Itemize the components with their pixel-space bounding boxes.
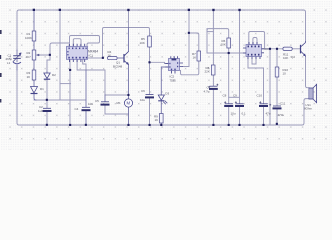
- wire R6 bottom down through C8 node: [228, 48, 230, 104]
- svg-text:10K: 10K: [140, 41, 145, 45]
- capacitor C5: [101, 102, 110, 105]
- node dot gnd x229: [228, 124, 230, 126]
- wire C8 to ground: [228, 107, 230, 126]
- node dot gnd return: [46, 99, 48, 101]
- node dot gnd x240: [238, 124, 240, 126]
- svg-text:0.1: 0.1: [242, 112, 247, 116]
- op-amp U2 (timer): [165, 56, 183, 73]
- wire speaker bottom to ground rail: [304, 99, 309, 101]
- lead R2 to R3: [33, 60, 35, 70]
- wire IC1 pin5 to C5: [77, 60, 105, 96]
- wire D2 down to ground rail: [46, 80, 48, 125]
- speaker LS1: [309, 84, 317, 102]
- wire IC2 output to Q2 base: [262, 48, 283, 50]
- svg-text:22K: 22K: [205, 70, 210, 74]
- svg-text:8Ohm: 8Ohm: [304, 107, 313, 111]
- wire C5 bottom jog: [105, 106, 129, 115]
- wires (light routing): [17, 10, 309, 125]
- wire T branch: [207, 31, 213, 33]
- resistor R3: [32, 70, 36, 80]
- resistor R8: [211, 65, 215, 75]
- lead R1: [33, 10, 35, 50]
- wire node E down to ground: [269, 49, 271, 125]
- svg-text:4.7u: 4.7u: [204, 90, 210, 94]
- node dot rail x60: [59, 9, 61, 11]
- svg-text:1K: 1K: [155, 118, 159, 122]
- wire V+ drop x=213 to R8: [212, 10, 214, 65]
- diode D1: [31, 87, 38, 94]
- svg-text:C11: C11: [280, 102, 286, 106]
- wire node C down to C6: [149, 62, 151, 94]
- capacitor C2: [43, 108, 52, 111]
- node dot gnd x172: [160, 124, 162, 126]
- wire V+ drop to IC1 area x=60: [59, 10, 61, 100]
- wire IC2 bottom pin loop: [252, 59, 256, 64]
- wire V+ drop x=240 to C9: [239, 10, 241, 104]
- svg-text:M: M: [127, 101, 131, 106]
- edge clipped marks left border: [0, 30, 2, 103]
- component leads (dark): [17, 10, 169, 125]
- wire R5 bottom to node C: [149, 47, 151, 62]
- wire node C to IC3 left pin: [150, 62, 169, 63]
- svg-text:100K: 100K: [25, 36, 32, 40]
- node dot rail x189: [188, 9, 190, 11]
- svg-text:10K: 10K: [283, 56, 288, 60]
- labels small text: [6, 32, 313, 122]
- inductor L1 curved plate: [13, 62, 21, 63]
- svg-text:Q2: Q2: [291, 55, 295, 59]
- svg-text:10u: 10u: [231, 112, 236, 116]
- resistor R2 (preset): [32, 50, 40, 60]
- wire IC1 pin to C4 jog: [83, 60, 86, 71]
- svg-text:C4: C4: [75, 107, 79, 111]
- label U3: [264, 47, 269, 51]
- wire node F through R10 C11 to ground: [276, 49, 278, 67]
- node dot gnd x47: [46, 124, 48, 126]
- wire R7 bottom to IC3 pin: [181, 61, 199, 75]
- wire top supply rail: [17, 10, 306, 51]
- svg-text:10u: 10u: [140, 98, 145, 102]
- lead tuning cap: [16, 50, 18, 70]
- node dot gnd x86: [85, 124, 87, 126]
- wire y27 to R5 top: [129, 28, 150, 37]
- node dot gnd x277: [276, 123, 278, 125]
- resistor R1: [32, 31, 36, 41]
- svg-text:1uF: 1uF: [38, 109, 43, 113]
- wire IC1 gnd branch left: [60, 83, 71, 85]
- wire node A up to IC1 loop: [50, 43, 70, 55]
- svg-text:7555: 7555: [170, 78, 177, 82]
- node dot base F: [276, 48, 278, 50]
- wire C6 to ground rail: [149, 98, 151, 125]
- svg-text:47u: 47u: [266, 112, 271, 116]
- svg-text:D3: D3: [165, 92, 169, 96]
- lead Q1 base: [118, 57, 124, 59]
- wire C9 to ground: [239, 107, 241, 126]
- capacitor C10: [259, 104, 268, 106]
- lead C4: [85, 70, 87, 125]
- variable capacitor C1: [13, 53, 21, 62]
- node dot IC1 out: [102, 57, 104, 59]
- diode D2: [44, 73, 50, 79]
- svg-text:10: 10: [283, 72, 287, 76]
- capacitor C11: [273, 106, 282, 108]
- svg-text:1K: 1K: [193, 56, 197, 60]
- svg-text:265p: 265p: [6, 57, 13, 61]
- wire x207 to IC2 left pin: [207, 29, 246, 53]
- node dot gnd x70: [69, 124, 71, 126]
- svg-text:4K7: 4K7: [26, 55, 32, 59]
- transistor Q1: [124, 52, 129, 65]
- svg-text:C6: C6: [141, 89, 145, 93]
- resistor R7: [197, 51, 201, 61]
- lead R3 to D1: [34, 80, 36, 100]
- wire C7 to ground: [212, 90, 214, 126]
- svg-text:IC3: IC3: [264, 47, 269, 51]
- node dot rail x34: [33, 9, 35, 11]
- wire R11 to Q2 base: [292, 48, 300, 50]
- transistor Q2: [301, 41, 306, 56]
- label U1: [88, 50, 98, 58]
- wire IC1 top loop A: [70, 36, 100, 47]
- wire node D to R7 top: [189, 33, 199, 51]
- node dot IC1 gnd: [69, 69, 71, 71]
- capacitor C7: [209, 86, 218, 89]
- svg-text:1K: 1K: [27, 75, 31, 79]
- wire IC2 top loop Y: [253, 38, 257, 45]
- capacitor C8: [224, 104, 233, 106]
- capacitor C6: [145, 95, 154, 98]
- node dot rail x128: [127, 9, 129, 11]
- wire C5 to node B: [105, 94, 128, 96]
- svg-text:C10: C10: [257, 94, 263, 98]
- wire Q2 emitter to speaker: [306, 57, 310, 88]
- wire IC2 top loop X: [249, 32, 265, 49]
- LED D3: [158, 95, 167, 104]
- capacitor C9: [235, 104, 244, 106]
- capacitor C4: [82, 107, 91, 110]
- wire R2 wiper to node A: [39, 55, 50, 72]
- motor M1: [124, 99, 132, 107]
- node dot rail x213: [212, 9, 214, 11]
- svg-text:D2: D2: [52, 73, 56, 77]
- op-amp U3 (audio amp): [243, 42, 264, 59]
- wire loop to R6: [207, 29, 229, 38]
- node dot gnd x213: [212, 124, 214, 126]
- wire IC1 gnd pin down: [69, 60, 71, 126]
- resistor R4: [108, 57, 118, 60]
- resistor R5: [148, 36, 152, 47]
- resistor R6: [227, 38, 231, 48]
- node dot base E: [269, 48, 271, 50]
- svg-text:IC1: IC1: [89, 54, 94, 58]
- node dot gnd x150: [149, 124, 151, 126]
- lead C5: [104, 95, 106, 102]
- svg-text:D1: D1: [40, 87, 44, 91]
- wire C10 to ground: [263, 107, 265, 126]
- node dot wiper: [49, 54, 51, 56]
- node dot gnd x262: [262, 124, 264, 126]
- node dot rail x240: [238, 9, 240, 11]
- svg-text:M1: M1: [117, 101, 121, 105]
- svg-text:C8: C8: [223, 93, 227, 97]
- wire IC2 bottom pin to C10: [248, 59, 264, 104]
- wire left rail down: [17, 66, 19, 125]
- svg-text:1K: 1K: [108, 54, 112, 58]
- wire ground return y=100: [34, 99, 86, 101]
- polarity plus marks: [208, 84, 271, 106]
- svg-text:10K: 10K: [221, 43, 226, 47]
- wire IC1 collector loop: [103, 28, 129, 59]
- svg-text:470u: 470u: [278, 113, 285, 117]
- lead D3 chain: [161, 67, 168, 125]
- lead D2: [46, 72, 48, 73]
- node dot node C: [148, 61, 150, 63]
- svg-text:10u: 10u: [88, 102, 93, 106]
- lead Q1 collector: [128, 28, 130, 52]
- resistor R11: [283, 47, 292, 50]
- wire R8 bottom to C7: [212, 75, 214, 86]
- node dot gnd x128: [127, 124, 129, 126]
- svg-text:C9: C9: [233, 93, 237, 97]
- node dot M1 top: [127, 94, 129, 96]
- resistor R12: [160, 114, 164, 124]
- wire V+ drop x=189: [183, 10, 189, 67]
- op-amp U1 (radio IC): [67, 44, 88, 62]
- wire C8 C9 top bracket: [229, 96, 240, 98]
- resistor R10: [275, 67, 279, 77]
- lead Q1 emitter to M1: [128, 65, 130, 126]
- svg-text:BC548: BC548: [113, 64, 123, 68]
- wire IC1 top loop B: [73, 39, 81, 46]
- node dot node D: [188, 32, 190, 34]
- wire IC1 out to node: [88, 57, 103, 59]
- node dot R6 cross: [228, 52, 230, 54]
- svg-text:C5: C5: [95, 99, 99, 103]
- wire bottom ground rail: [19, 101, 304, 126]
- wire V+ drop x=128 to Q1 collector: [128, 10, 130, 28]
- label U2: [170, 75, 177, 83]
- svg-text:L1: L1: [7, 61, 11, 65]
